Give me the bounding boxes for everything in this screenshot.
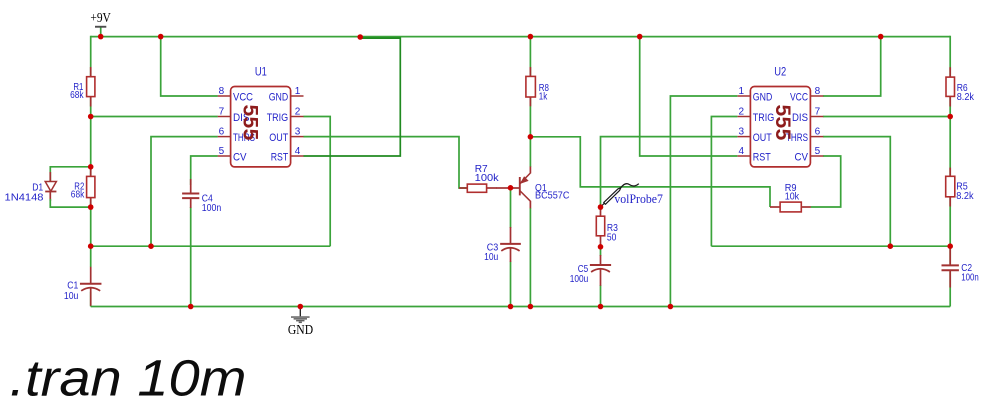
wire U2 RST to rail — [640, 37, 738, 156]
svg-text:100n: 100n — [961, 272, 979, 284]
svg-text:VCC: VCC — [233, 91, 253, 103]
wire U1 DIS to left rail — [91, 116, 218, 118]
capacitor C1 10u — [64, 267, 102, 306]
svg-text:10u: 10u — [484, 251, 498, 263]
wire R9 to U2 CV — [811, 156, 841, 207]
U1 pin 2 TRIG — [291, 116, 304, 118]
wire U2 GND to bottom rail — [670, 96, 737, 307]
svg-text:1N4148: 1N4148 — [5, 191, 44, 203]
wire node row right — [711, 245, 950, 247]
op-amp U1 555 timer — [218, 66, 304, 167]
wire right rail lower — [949, 272, 951, 307]
U2 pin 7 DIS — [810, 116, 823, 118]
junction U1 VCC at top rail — [158, 34, 164, 40]
wire U1 TRIG riser — [303, 117, 330, 247]
junction R3/C5 — [598, 244, 604, 250]
probe volProbe7 — [601, 184, 664, 207]
wire Q1 emitter up — [529, 137, 531, 167]
capacitor C3 10u — [484, 227, 521, 263]
svg-text:2: 2 — [738, 107, 744, 118]
junction R2/D1 top — [88, 164, 94, 170]
svg-text:1k: 1k — [539, 91, 548, 103]
junction U2 THRS node B — [888, 243, 894, 249]
wire U2 OUT to R3 node — [601, 137, 738, 208]
U1 pin 4 RST — [291, 155, 304, 157]
svg-text:6: 6 — [815, 127, 821, 138]
svg-text:4: 4 — [738, 146, 744, 157]
junction U1 THRS riser node A — [148, 243, 154, 249]
U1 pin 3 OUT — [291, 136, 304, 138]
U2 pin 5 CV — [810, 155, 823, 157]
wire U2 TRIG riser — [711, 117, 737, 247]
wire node row left — [91, 245, 331, 247]
svg-text:100u: 100u — [570, 273, 589, 285]
svg-text:OUT: OUT — [753, 132, 772, 144]
U1 pin 8 VCC — [218, 95, 231, 97]
svg-text:GND: GND — [269, 91, 289, 103]
svg-text:8.2k: 8.2k — [956, 190, 974, 202]
junction C5 at ground rail — [598, 304, 604, 310]
junction U1 RST at top rail — [357, 34, 363, 40]
junction R8 at top rail — [528, 34, 534, 40]
op-amp U2 555 timer — [738, 66, 824, 167]
svg-text:RST: RST — [753, 151, 771, 163]
wire R7 to Q1 base — [496, 187, 511, 189]
svg-text:8.2k: 8.2k — [957, 91, 975, 103]
svg-text:CV: CV — [795, 151, 809, 163]
wire C3 to bottom rail — [510, 262, 512, 307]
svg-text:BC557C: BC557C — [535, 190, 570, 202]
svg-text:8: 8 — [219, 86, 225, 97]
wire left rail upper — [90, 36, 92, 267]
svg-text:68k: 68k — [71, 189, 85, 201]
U2 pin 8 VCC — [810, 95, 823, 97]
capacitor C2 100n — [942, 246, 979, 287]
svg-text:555: 555 — [238, 104, 261, 140]
svg-text:7: 7 — [815, 107, 821, 118]
svg-text:10k: 10k — [785, 190, 800, 202]
resistor R2 68k — [71, 167, 95, 207]
svg-text:GND: GND — [753, 91, 773, 103]
svg-text:TRIG: TRIG — [267, 112, 289, 124]
junction Q1 base/R7/C3 — [508, 185, 514, 191]
junction R2/D1 bottom — [88, 204, 94, 210]
svg-text:3: 3 — [295, 127, 301, 138]
wire right rail upper — [949, 36, 951, 264]
junction GND symbol at ground rail — [298, 304, 304, 310]
resistor R8 1k — [526, 67, 549, 106]
junction right rail node B — [947, 243, 953, 249]
svg-text:1: 1 — [295, 86, 301, 97]
wire C5 to bottom rail — [600, 285, 602, 307]
transistor Q1 BC557C — [511, 167, 570, 209]
resistor R3 50 — [596, 207, 618, 247]
svg-text:5: 5 — [219, 146, 225, 157]
wire bottom ground rail — [91, 306, 951, 308]
svg-text:volProbe7: volProbe7 — [614, 191, 663, 206]
U2 pin 2 TRIG — [738, 116, 751, 118]
U1 pin 5 CV — [218, 155, 231, 157]
U1 pin 1 GND — [291, 95, 304, 97]
wire R3 C5 link — [600, 247, 602, 256]
svg-text:5: 5 — [815, 146, 821, 157]
resistor R6 8.2k — [946, 67, 975, 106]
U2 pin 4 RST — [738, 155, 751, 157]
junction C3 at ground rail — [508, 304, 514, 310]
svg-text:U2: U2 — [774, 66, 786, 78]
wire top power rail — [91, 36, 951, 38]
junction left rail node A — [88, 243, 94, 249]
U2 pin 3 OUT — [738, 136, 751, 138]
resistor R5 8.2k — [946, 168, 975, 207]
wire U1 RST to rail jog — [303, 38, 400, 156]
svg-text:U1: U1 — [255, 66, 267, 78]
svg-text:100k: 100k — [475, 172, 500, 184]
wire U1 VCC to rail — [161, 37, 218, 96]
wire left rail lower — [90, 292, 92, 307]
junction U2 GND at ground rail — [668, 304, 674, 310]
svg-text:2: 2 — [295, 107, 301, 118]
svg-text:RST: RST — [271, 151, 289, 163]
svg-text:68k: 68k — [70, 89, 84, 101]
junction U2 DIS with R6/R5 — [947, 114, 953, 120]
svg-text:10u: 10u — [64, 290, 79, 302]
U2 pin 1 GND — [738, 95, 751, 97]
svg-text:7: 7 — [219, 107, 225, 118]
wire U1 CV to C4 — [191, 156, 218, 185]
resistor R7 100k — [459, 163, 499, 192]
svg-text:GND: GND — [288, 322, 313, 337]
junction C4 at ground rail — [188, 304, 194, 310]
wire U2 DIS to right rail — [823, 116, 950, 118]
svg-text:+9V: +9V — [90, 10, 111, 25]
svg-text:VCC: VCC — [790, 91, 808, 103]
junction U2 RST at top rail — [637, 34, 643, 40]
power +9V symbol — [90, 10, 111, 37]
junction U2 VCC at top rail — [878, 34, 884, 40]
svg-text:1: 1 — [738, 86, 744, 97]
wire U1 THRS riser — [151, 137, 218, 247]
resistor R1 68k — [70, 67, 95, 107]
wire U1 OUT to R7 — [303, 137, 467, 188]
svg-text:8: 8 — [815, 86, 821, 97]
svg-text:CV: CV — [233, 151, 247, 163]
junction R8/Q1 emitter/U1 OUT node — [528, 134, 534, 140]
svg-text:4: 4 — [295, 146, 301, 157]
junction R1/R2 with U1 DIS — [88, 114, 94, 120]
resistor R9 10k — [770, 182, 811, 212]
U2 pin 6 THRS — [810, 136, 823, 138]
ground symbol GND — [288, 307, 313, 337]
junction Q1 collector at ground rail — [528, 304, 534, 310]
junction volProbe7 node at R3 — [598, 204, 604, 210]
wire U2 THRS riser — [823, 137, 890, 247]
svg-text:.tran 10m: .tran 10m — [10, 349, 247, 406]
wire Q1 collector down — [529, 208, 531, 307]
capacitor C4 100n — [182, 179, 221, 214]
svg-text:6: 6 — [219, 127, 225, 138]
wire R8 column — [529, 37, 531, 137]
wire Q1 base to C3 — [510, 188, 512, 228]
junction +9V at top rail — [98, 34, 104, 40]
wire U2 VCC to rail — [823, 37, 881, 96]
wire C4 to bottom rail — [190, 207, 192, 307]
svg-text:100n: 100n — [202, 202, 222, 214]
wire emitter node to R9 — [530, 137, 770, 207]
svg-text:3: 3 — [738, 127, 744, 138]
U1 pin 6 THRS — [218, 136, 231, 138]
svg-text:50: 50 — [607, 232, 617, 244]
capacitor C5 100u — [570, 255, 611, 286]
svg-text:555: 555 — [771, 104, 794, 140]
diode D1 1N4148 — [5, 167, 91, 207]
svg-text:OUT: OUT — [269, 132, 288, 144]
U1 pin 7 DIS — [218, 116, 231, 118]
